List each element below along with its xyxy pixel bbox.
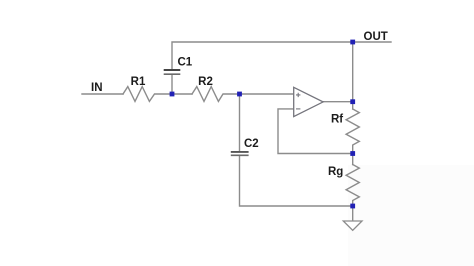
svg-text:Rf: Rf [331,114,343,126]
svg-text:R2: R2 [198,76,213,88]
svg-text:Rg: Rg [328,166,343,178]
svg-text:C2: C2 [244,138,259,150]
svg-text:R1: R1 [131,76,146,88]
svg-text:IN: IN [91,82,103,94]
svg-text:OUT: OUT [364,31,388,43]
svg-text:C1: C1 [178,57,193,69]
